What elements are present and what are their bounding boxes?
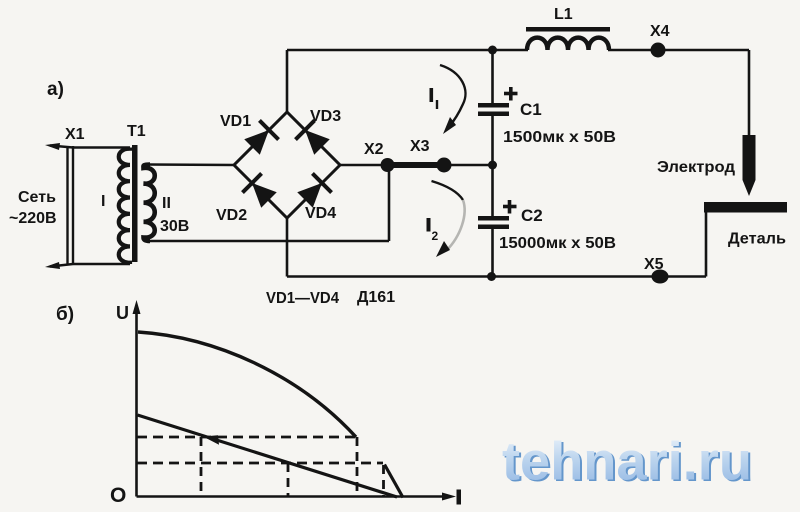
svg-text:I: I (101, 193, 105, 210)
wire X2 to X3 thick (385, 162, 447, 168)
transformer T1 primary winding (119, 148, 130, 265)
svg-text:L1: L1 (554, 6, 573, 23)
graph dashed H1 (137, 436, 356, 439)
wire bridge right vertex to X2 (340, 164, 387, 167)
node junction bottom rail (487, 272, 496, 281)
diode VD2 (242, 173, 278, 209)
svg-text:2: 2 (432, 229, 439, 243)
plus sign C2 (503, 200, 517, 214)
wire secondary top to bridge (148, 163, 235, 166)
wire top rail (287, 49, 528, 52)
graph dashed V3 (356, 437, 359, 496)
svg-text:Д161: Д161 (357, 289, 395, 306)
svg-text:O: O (110, 484, 126, 507)
node X3 (437, 158, 452, 173)
graph X axis (137, 495, 450, 498)
svg-text:15000мк х 50В: 15000мк х 50В (499, 235, 616, 252)
transformer T1 core (132, 145, 138, 262)
transformer T1 secondary winding (143, 165, 154, 242)
svg-text:Сеть: Сеть (18, 189, 56, 206)
svg-text:X4: X4 (650, 23, 670, 40)
wire bridge bottom vertex down (286, 218, 289, 277)
capacitor C2 (478, 216, 509, 221)
svg-text:Электрод: Электрод (657, 159, 735, 176)
diode bridge frame (234, 112, 340, 218)
svg-text:Деталь: Деталь (728, 231, 786, 248)
svg-text:30В: 30В (160, 218, 189, 235)
wire bridge top vertex up (286, 50, 289, 112)
node junction top rail (488, 46, 497, 55)
workpiece bar Деталь (704, 202, 787, 213)
svg-text:T1: T1 (127, 123, 146, 140)
wire X2 down (388, 165, 391, 241)
capacitor C1 (478, 103, 509, 108)
svg-text:1500мк х 50В: 1500мк х 50В (503, 129, 616, 146)
inductor L1 (527, 38, 609, 50)
current arrow I1 (440, 65, 465, 128)
wire rail C1 to C2 (491, 116, 494, 217)
plus sign C1 (504, 87, 518, 101)
svg-text:X2: X2 (364, 141, 384, 158)
diode VD3 (295, 120, 331, 156)
graph short-circuit drop line (385, 465, 404, 498)
graph dashed V1 (200, 437, 203, 496)
graph outer characteristic curve (138, 332, 356, 437)
svg-text:X1: X1 (65, 126, 85, 143)
svg-text:а): а) (47, 79, 64, 100)
svg-text:VD1—VD4: VD1—VD4 (266, 290, 339, 307)
wire X3 to rail (447, 164, 493, 167)
graph dashed H2 (137, 462, 383, 465)
wire secondary bottom to X2 drop (148, 240, 389, 243)
graph Y axis (135, 310, 138, 497)
terminal X5 (652, 270, 669, 284)
label I2 (427, 218, 431, 232)
svg-text:VD2: VD2 (216, 207, 247, 224)
wire X1 bottom arrow (50, 264, 73, 267)
current arrow I2 (432, 181, 464, 200)
graph load line arrowhead (203, 435, 219, 445)
terminal X4 (651, 43, 666, 58)
diode VD4 (295, 173, 331, 209)
wire X1 to primary bottom (73, 263, 130, 266)
diode VD1 (242, 120, 278, 156)
graph axis label I (457, 490, 462, 505)
wire bottom rail (287, 275, 706, 278)
electrode symbol (743, 135, 756, 196)
wire X1 to primary top (73, 146, 130, 149)
graph dashed V4 (382, 465, 385, 497)
graph load line (138, 415, 398, 497)
svg-text:U: U (116, 303, 129, 323)
svg-text:X5: X5 (644, 256, 664, 273)
wire rail down to electrode (748, 50, 751, 137)
wire filter rail C1 segment (491, 50, 494, 104)
svg-text:C1: C1 (520, 100, 542, 119)
node junction X3 rail (488, 161, 497, 170)
svg-text:б): б) (56, 304, 74, 325)
inductor L1 core bar (526, 27, 610, 32)
wire X1 top arrow (50, 146, 73, 148)
svg-text:C2: C2 (521, 206, 543, 225)
svg-text:X3: X3 (410, 138, 430, 155)
svg-text:tehnari.ru: tehnari.ru (502, 432, 752, 492)
label I1 (430, 88, 434, 102)
wire workpiece down to rail (705, 212, 708, 277)
svg-text:~220В: ~220В (9, 210, 57, 227)
svg-text:VD1: VD1 (220, 113, 251, 130)
graph dashed V2 (287, 463, 290, 496)
svg-text:II: II (162, 195, 171, 212)
node X2 (381, 158, 395, 172)
svg-text:VD4: VD4 (305, 205, 336, 222)
wire rail C2 to bottom (491, 228, 494, 277)
svg-text:VD3: VD3 (310, 108, 341, 125)
terminal X1 plug lines (68, 146, 74, 265)
wire top rail right (608, 49, 749, 52)
